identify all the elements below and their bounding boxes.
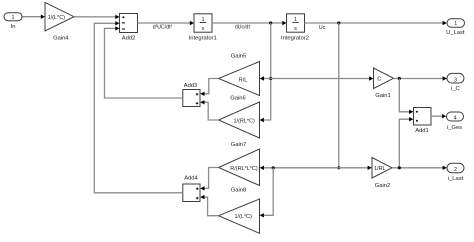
sum Add1 (414, 108, 432, 135)
wire branch down to Gain8 input (260, 168, 274, 218)
svg-text:Gain1: Gain1 (375, 93, 390, 99)
wire Add3 out to Add2 input3 (105, 26, 183, 98)
svg-text:Gain5: Gain5 (231, 54, 246, 60)
wire Gain2 to i_Last (392, 166, 447, 170)
wire Gain4 to Add2 (74, 15, 120, 19)
wire Integrator1 to Integrator2 (212, 21, 287, 25)
svg-text:Add3: Add3 (184, 83, 198, 89)
svg-text:Add4: Add4 (184, 176, 198, 182)
svg-text:1/RL: 1/RL (374, 166, 386, 172)
svg-text:3: 3 (454, 77, 457, 83)
svg-text:Gain8: Gain8 (231, 187, 246, 193)
wire Gain1 branch down to Add1 input1 (399, 79, 413, 115)
sum Add2 (120, 14, 138, 42)
svg-text:Uc: Uc (319, 25, 326, 31)
junction dUc/dt node (269, 21, 272, 24)
svg-text:U_Last: U_Last (446, 30, 465, 36)
wire Gain5 apex to Add3 input1 (200, 79, 218, 97)
svg-text:Integrator1: Integrator1 (189, 36, 217, 42)
svg-text:s: s (202, 26, 205, 32)
svg-text:s: s (294, 26, 297, 32)
gain Gain4 (45, 2, 74, 41)
svg-text:1/(RL*C): 1/(RL*C) (233, 119, 255, 125)
svg-text:1: 1 (454, 21, 457, 27)
signal Uc (319, 25, 326, 31)
integrator Integrator2 (281, 14, 309, 42)
svg-text:1: 1 (12, 15, 15, 21)
svg-text:d²UC/dt²: d²UC/dt² (153, 25, 173, 31)
junction Gain1 out node (398, 77, 401, 80)
wire Uc vertical drop to row3 (338, 23, 340, 168)
outport i_C (3) (447, 73, 464, 92)
gain Gain6 (1/(RL*C)) (219, 96, 260, 139)
outport U_Last (1) (446, 19, 465, 36)
svg-text:1/(L*C): 1/(L*C) (48, 15, 66, 21)
svg-text:Gain4: Gain4 (53, 36, 69, 42)
wire Gain1 to i_C (394, 76, 447, 80)
junction row1 node (269, 77, 272, 80)
svg-text:Gain2: Gain2 (375, 183, 390, 189)
outport i_Ges (4) (447, 112, 464, 131)
svg-text:i_Last: i_Last (448, 176, 464, 182)
svg-text:dUc/dt: dUc/dt (235, 24, 251, 30)
gain Gain5 (R/L) (219, 54, 260, 96)
svg-text:1/(L*C): 1/(L*C) (234, 214, 252, 220)
outport i_Last (2) (447, 163, 464, 182)
svg-text:4: 4 (454, 116, 457, 122)
gain Gain8 (1/(L*C)) (219, 187, 260, 233)
wire dUc/dt vertical drop to row1 and T2 (260, 23, 271, 122)
svg-text:Gain7: Gain7 (231, 142, 246, 148)
gain Gain1 (C) (374, 68, 394, 99)
svg-text:i_C: i_C (451, 86, 460, 92)
wire Gain6 apex to Add3 input2 (200, 100, 218, 120)
wire Gain2 branch up to Add1 input2 (399, 117, 413, 168)
svg-text:2: 2 (454, 167, 457, 173)
wire Gain7 apex to Add4 input1 (200, 168, 218, 191)
svg-text:R/L: R/L (239, 77, 248, 83)
integrator Integrator1 (189, 14, 217, 42)
svg-text:C: C (377, 77, 381, 83)
sum Add3 (183, 83, 200, 107)
wire row3 Uc to Gain7 and Gain2 (260, 166, 372, 170)
inport In (1) (4, 13, 22, 30)
svg-text:In: In (11, 24, 16, 30)
junction Uc node (337, 21, 340, 24)
svg-text:i_Ges: i_Ges (447, 125, 462, 131)
gain Gain7 (R/(RL*L*C)) (219, 142, 260, 186)
junction row3 branch node (272, 166, 275, 169)
svg-text:Add2: Add2 (122, 35, 136, 41)
signal dUc/dt (235, 24, 251, 30)
wire Add4 out to Add2 input2 (94, 21, 183, 193)
junction Gain2 out node (398, 166, 401, 169)
wire Integrator2 to U_Last (305, 21, 447, 25)
signal d2UC/dt2 (153, 25, 173, 31)
svg-text:Integrator2: Integrator2 (281, 36, 309, 42)
svg-text:Add1: Add1 (415, 128, 429, 134)
wire In to Gain4 (22, 15, 45, 19)
wire Add2 to Integrator1 (138, 21, 195, 25)
svg-text:Gain6: Gain6 (230, 96, 245, 102)
svg-text:R/(RL*L*C): R/(RL*L*C) (230, 166, 258, 172)
gain Gain2 (1/RL) (372, 158, 392, 189)
wire row1 dUc/dt to Gain5 and Gain1 (260, 76, 374, 80)
wire Add1 to i_Ges (431, 114, 446, 118)
sum Add4 (183, 176, 200, 202)
wire Gain8 apex to Add4 input2 (200, 195, 218, 216)
junction row3 Uc node (337, 166, 340, 169)
